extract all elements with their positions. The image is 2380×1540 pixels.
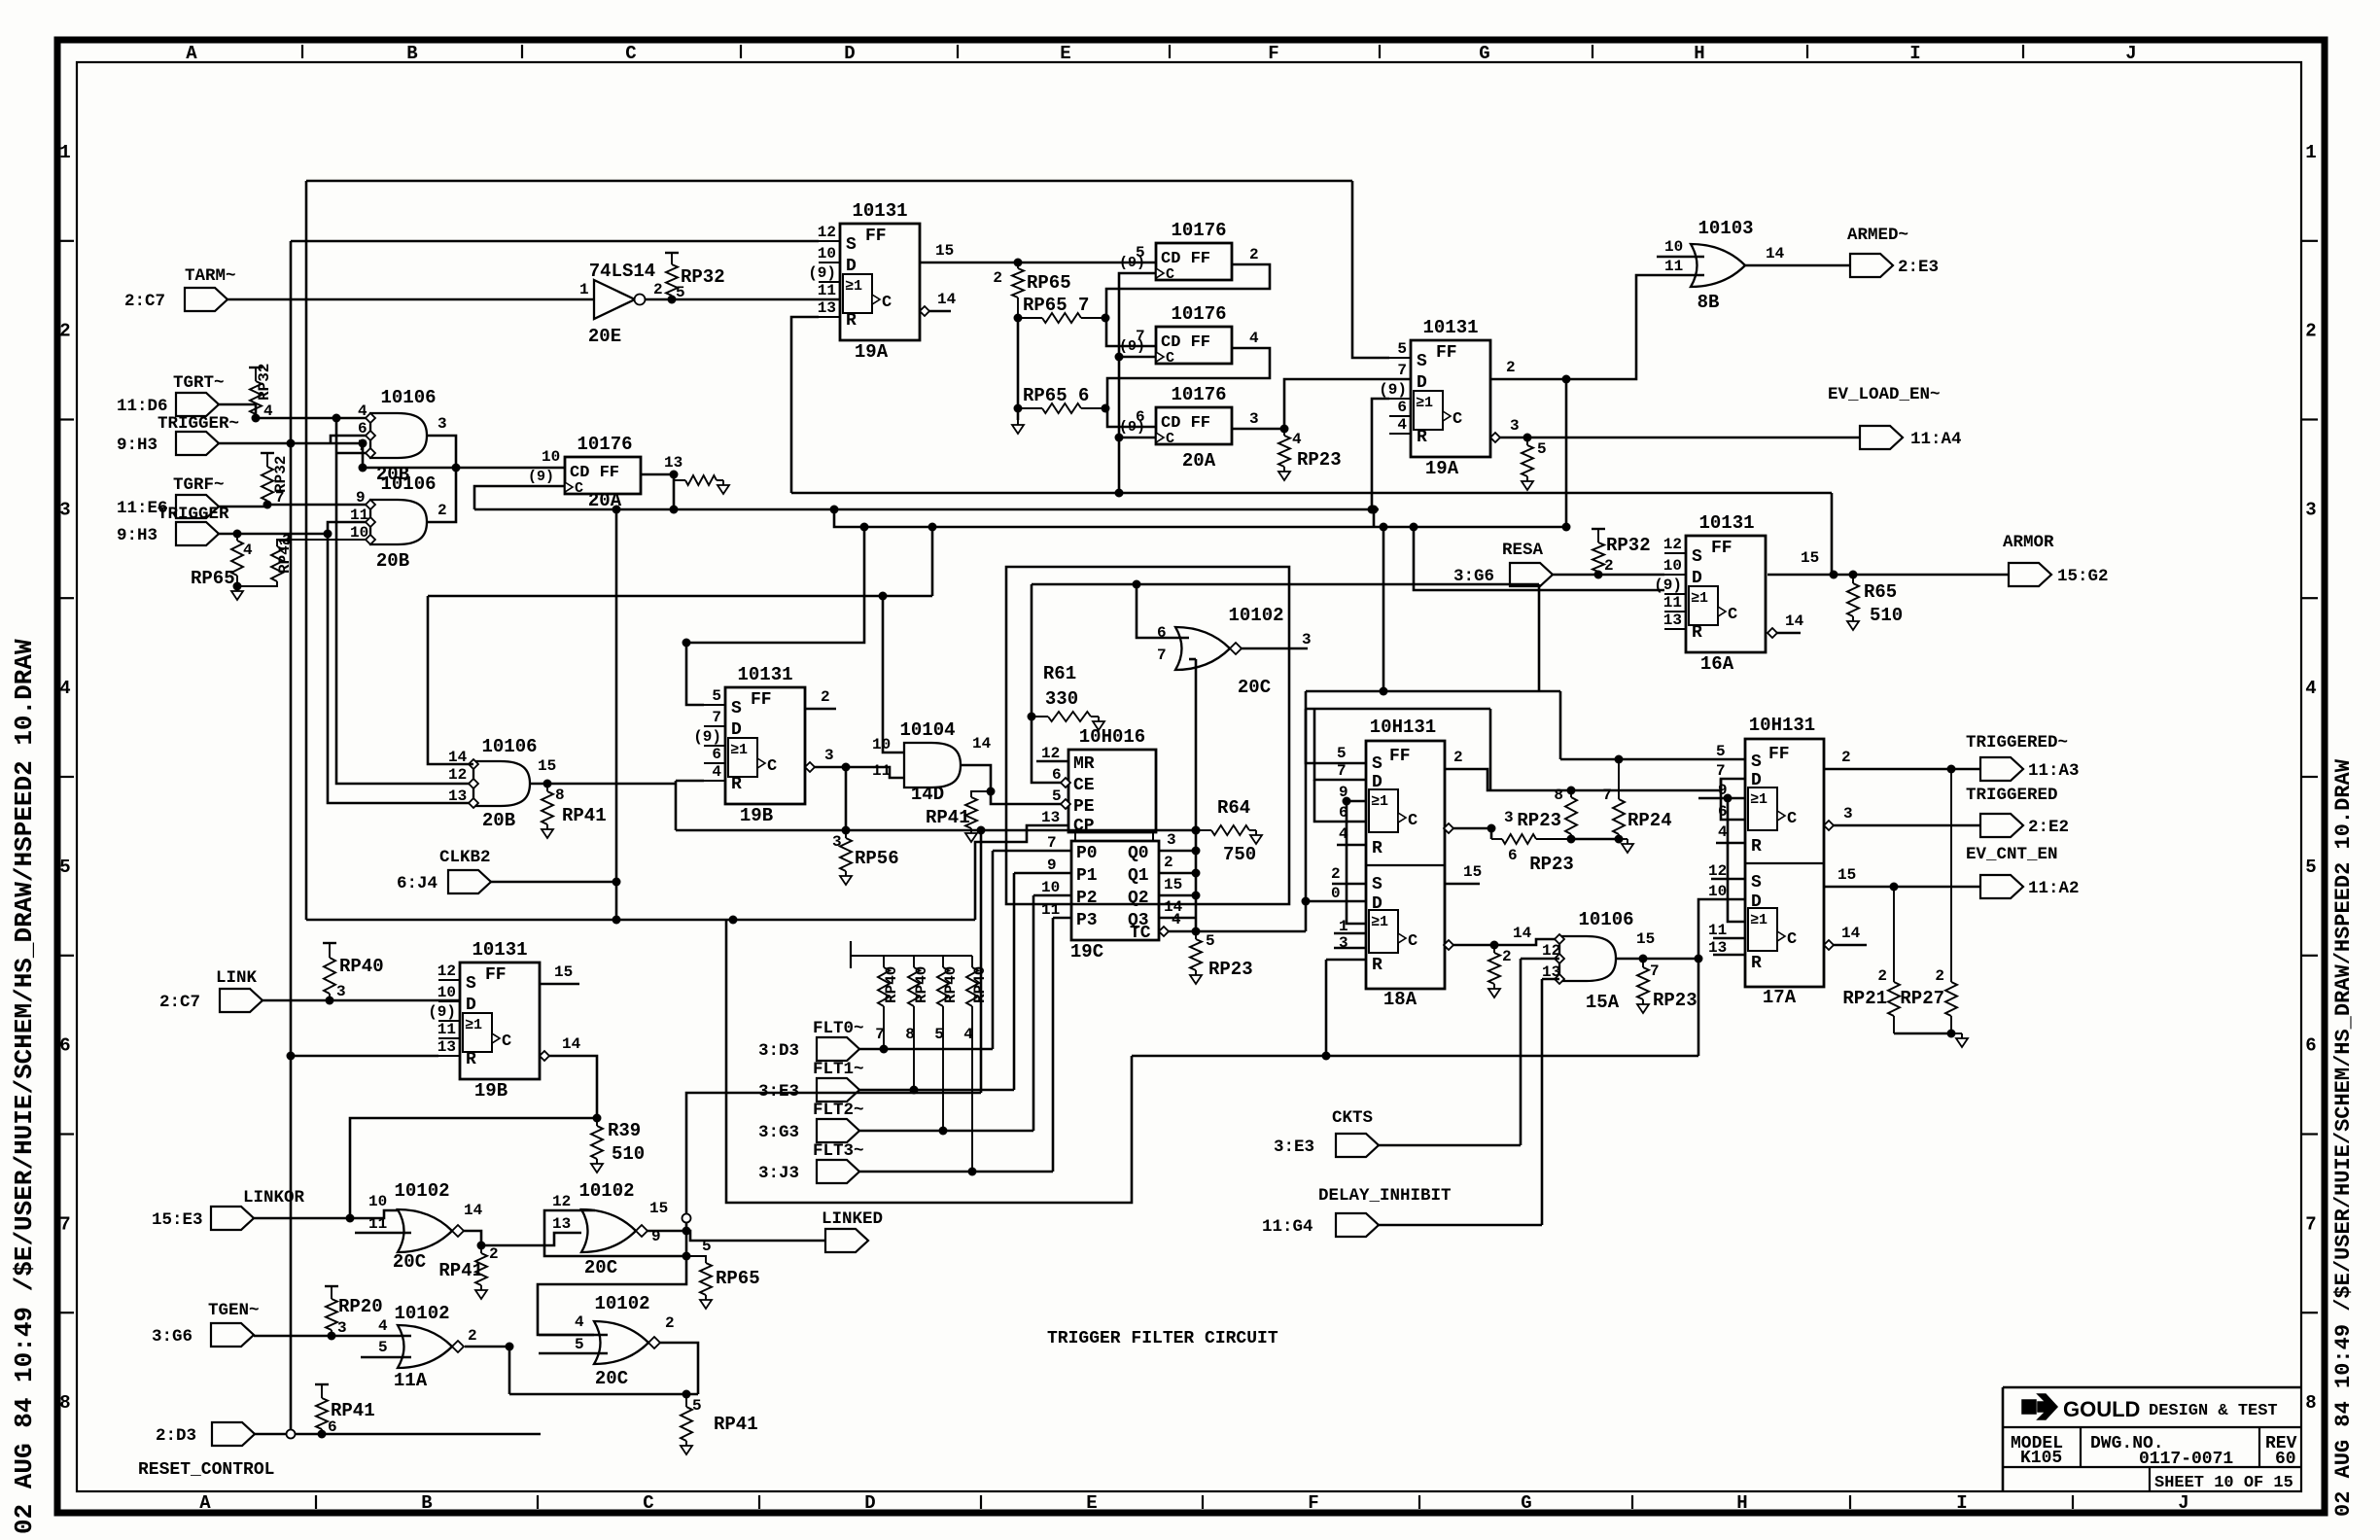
svg-text:RP65 7: RP65 7 bbox=[1023, 295, 1089, 316]
svg-text:RP23: RP23 bbox=[1529, 854, 1574, 875]
wire 20A out 13 to pullup and ground bbox=[641, 473, 674, 476]
svg-text:12: 12 bbox=[437, 962, 456, 980]
resistor RP23 pin 5 below EV_LOAD line bbox=[1526, 437, 1528, 445]
svg-text:C: C bbox=[1408, 812, 1417, 830]
wire FLT3~ to P3 bbox=[859, 1171, 1053, 1173]
svg-text:14: 14 bbox=[1841, 925, 1861, 942]
wire DELAY_INHIBIT to 15A bbox=[1379, 1224, 1542, 1227]
flip-flop U19B 10131 (lower) bbox=[460, 962, 540, 1079]
svg-text:10106: 10106 bbox=[481, 736, 537, 757]
svg-text:3: 3 bbox=[1510, 417, 1520, 435]
svg-text:14: 14 bbox=[937, 291, 957, 308]
svg-text:20B: 20B bbox=[482, 810, 515, 831]
svg-text:≥1: ≥1 bbox=[1750, 791, 1767, 808]
svg-text:11: 11 bbox=[872, 762, 891, 780]
wire 18A D pin 7 bracket bbox=[1314, 709, 1366, 780]
svg-text:11: 11 bbox=[1663, 594, 1682, 612]
svg-text:(9): (9) bbox=[528, 469, 554, 485]
svg-text:19A: 19A bbox=[855, 341, 889, 363]
svg-text:RP41: RP41 bbox=[438, 1260, 483, 1281]
svg-text:4: 4 bbox=[263, 402, 273, 420]
svg-text:10: 10 bbox=[1041, 879, 1060, 896]
wire RP65-6 node to 10176#3 pin 6 bbox=[1107, 408, 1156, 427]
wire TRIGGER~ to 20B pin 6 and bus B1 bbox=[219, 442, 363, 445]
svg-text:TGEN~: TGEN~ bbox=[208, 1301, 260, 1320]
wire 18A lower R from bus1086 bbox=[1326, 959, 1366, 962]
wire top bus B0 bbox=[306, 180, 1352, 183]
wire FLT2~ to P2 bbox=[859, 1130, 1033, 1133]
svg-text:3: 3 bbox=[59, 499, 70, 520]
wire busR horizontal bbox=[791, 492, 1832, 495]
svg-text:2: 2 bbox=[821, 688, 830, 706]
wire TGEN~ to 11A pin 4 bbox=[254, 1335, 411, 1338]
svg-text:CLKB2: CLKB2 bbox=[439, 848, 491, 867]
svg-text:FF: FF bbox=[1711, 539, 1732, 558]
svg-text:10106: 10106 bbox=[380, 473, 436, 495]
svg-text:4: 4 bbox=[963, 1026, 973, 1043]
svg-text:G: G bbox=[1479, 43, 1489, 64]
svg-text:12: 12 bbox=[818, 224, 836, 241]
wire TC feedback up to D-line bbox=[1305, 709, 1308, 901]
wire CKTS to 15A pin 12 bbox=[1521, 958, 1559, 961]
svg-text:I: I bbox=[1956, 1492, 1967, 1514]
svg-text:15: 15 bbox=[1837, 866, 1856, 884]
output flag ARMOR 15:G2 bbox=[2009, 563, 2051, 586]
svg-text:8: 8 bbox=[2305, 1392, 2316, 1414]
svg-text:3: 3 bbox=[1167, 831, 1176, 849]
svg-text:10: 10 bbox=[872, 736, 891, 753]
svg-text:S: S bbox=[1372, 875, 1382, 894]
svg-text:11:A2: 11:A2 bbox=[2028, 879, 2080, 898]
svg-text:8: 8 bbox=[1554, 787, 1563, 804]
svg-text:H: H bbox=[1694, 43, 1704, 64]
svg-text:3:D3: 3:D3 bbox=[758, 1041, 799, 1061]
svg-text:14D: 14D bbox=[911, 784, 944, 805]
wire 20B#3 pin 14 loop from line y613 bbox=[428, 596, 473, 764]
svg-text:10106: 10106 bbox=[380, 387, 436, 408]
svg-text:FF: FF bbox=[1389, 747, 1411, 766]
wire S-line to 18A S pin 5 bbox=[1306, 691, 1366, 763]
svg-text:3: 3 bbox=[1843, 805, 1853, 822]
wire 19A out 15 to 10176 pin 5 bbox=[920, 262, 1156, 264]
svg-text:RP32: RP32 bbox=[256, 364, 273, 401]
svg-text:2: 2 bbox=[1935, 967, 1944, 985]
resistor RP65 pin 5 below LINKED node bbox=[686, 1256, 706, 1263]
svg-text:1: 1 bbox=[579, 281, 589, 298]
svg-text:7: 7 bbox=[1136, 328, 1145, 345]
CD flip-flop U20A 10176 (single) bbox=[565, 457, 641, 494]
svg-text:3:J3: 3:J3 bbox=[758, 1164, 799, 1183]
svg-text:R39: R39 bbox=[608, 1120, 641, 1141]
svg-text:2: 2 bbox=[1453, 749, 1463, 766]
svg-text:R64: R64 bbox=[1217, 797, 1250, 819]
resistor RP20 pin 3 pull on TGEN~ bbox=[331, 1286, 332, 1294]
input flag TARM~ 2:C7 bbox=[185, 288, 227, 311]
svg-text:3:G3: 3:G3 bbox=[758, 1123, 799, 1142]
svg-text:D: D bbox=[844, 43, 855, 64]
svg-text:CP: CP bbox=[1073, 817, 1095, 836]
svg-text:RESA: RESA bbox=[1502, 541, 1544, 560]
svg-text:6: 6 bbox=[1397, 399, 1407, 416]
svg-text:2: 2 bbox=[1506, 359, 1516, 376]
wire bus B1 TRIGGER~ to 19A S bbox=[291, 240, 819, 243]
svg-text:5: 5 bbox=[702, 1238, 712, 1255]
svg-text:5: 5 bbox=[1716, 743, 1726, 760]
svg-text:7: 7 bbox=[1397, 362, 1407, 379]
svg-text:5: 5 bbox=[575, 1336, 584, 1353]
svg-text:K105: K105 bbox=[2020, 1449, 2062, 1468]
svg-text:≥1: ≥1 bbox=[1750, 912, 1767, 928]
svg-text:15: 15 bbox=[538, 757, 556, 775]
svg-text:FLT2~: FLT2~ bbox=[813, 1101, 864, 1120]
svg-text:RP23: RP23 bbox=[1517, 810, 1561, 831]
svg-text:4: 4 bbox=[1397, 416, 1407, 434]
wire 20B pin7 vertical V3 bbox=[336, 418, 473, 784]
svg-text:B: B bbox=[406, 43, 417, 64]
svg-text:RP65: RP65 bbox=[191, 568, 235, 589]
svg-text:10: 10 bbox=[1664, 238, 1683, 256]
svg-text:20E: 20E bbox=[588, 326, 621, 347]
GOULD logo bbox=[2022, 1400, 2036, 1414]
svg-text:≥1: ≥1 bbox=[1371, 793, 1388, 810]
svg-text:2: 2 bbox=[1502, 948, 1512, 965]
svg-text:RP41: RP41 bbox=[714, 1414, 758, 1435]
wire LINK to 19B D bbox=[262, 999, 460, 1002]
wire 16A (9) from busD bbox=[1414, 527, 1664, 590]
svg-text:J: J bbox=[2178, 1492, 2188, 1514]
wire RP65 node loop bbox=[685, 1231, 688, 1256]
svg-text:C: C bbox=[767, 757, 777, 776]
CD flip-flop U20A 10176 (bottom of trio) bbox=[1156, 407, 1232, 444]
vertical wire V4 to 20B#3 pin 13 bbox=[328, 534, 473, 803]
wire 17A D bracket pin 6 bbox=[1721, 779, 1745, 820]
svg-text:9: 9 bbox=[356, 489, 366, 507]
AND gate U20B 10106 (lower) bbox=[370, 500, 427, 544]
svg-text:RP41: RP41 bbox=[331, 1400, 375, 1421]
svg-text:13: 13 bbox=[818, 299, 836, 317]
svg-text:15: 15 bbox=[935, 242, 954, 260]
flip-flop U18A 10H131 dual bbox=[1366, 741, 1445, 989]
svg-text:7: 7 bbox=[1157, 647, 1167, 664]
resistor RP23 pin 5 below TC bbox=[1195, 931, 1197, 939]
svg-text:16A: 16A bbox=[1700, 653, 1734, 675]
input flag CLKB2 6:J4 bbox=[448, 870, 491, 893]
svg-text:RP41: RP41 bbox=[926, 807, 970, 828]
resistor RP23 pin 7 below 15A out bbox=[1642, 959, 1644, 967]
resistor RP32 pull on TGRF~ pin 7 bbox=[262, 467, 273, 501]
svg-text:Q1: Q1 bbox=[1128, 866, 1149, 886]
svg-text:5: 5 bbox=[1537, 440, 1547, 458]
svg-text:8: 8 bbox=[59, 1392, 70, 1414]
NOR gate U20C 10102 (second) bbox=[581, 1209, 636, 1252]
svg-text:RP20: RP20 bbox=[338, 1296, 383, 1317]
svg-text:7: 7 bbox=[1716, 762, 1726, 780]
svg-text:S: S bbox=[1372, 754, 1382, 774]
svg-text:20C: 20C bbox=[584, 1257, 617, 1278]
svg-text:12: 12 bbox=[1663, 536, 1682, 553]
resistor RP32 pull on TARM node pin 5 bbox=[668, 296, 677, 304]
svg-text:14: 14 bbox=[464, 1202, 483, 1219]
svg-text:2:E2: 2:E2 bbox=[2028, 818, 2069, 837]
svg-text:C: C bbox=[1728, 606, 1737, 624]
svg-text:E: E bbox=[1060, 43, 1070, 64]
AND gate U15A 10106 bbox=[1559, 936, 1616, 981]
svg-text:P0: P0 bbox=[1076, 844, 1098, 863]
svg-text:≥1: ≥1 bbox=[1416, 395, 1433, 411]
svg-text:C: C bbox=[1787, 810, 1797, 828]
svg-text:19B: 19B bbox=[474, 1080, 507, 1102]
AND gate U14D 10104 bbox=[904, 743, 961, 787]
svg-text:15:G2: 15:G2 bbox=[2057, 567, 2109, 586]
svg-text:02 AUG 84 10:49 /$E/USER/HUIE/: 02 AUG 84 10:49 /$E/USER/HUIE/SCHEM/HS_D… bbox=[2331, 758, 2356, 1517]
wire 14D out to 10H016 PE bbox=[961, 765, 1061, 804]
counter U19C 10H016 upper section bbox=[1068, 750, 1156, 832]
resistor RP41 pin 3 loop to 20B pin 10 bbox=[237, 581, 277, 586]
wire clock vertical from busC to busE bbox=[615, 509, 618, 920]
resistor RP40 pin 8 bbox=[913, 962, 915, 967]
wire TRIGGER to 20B pin 11 bbox=[219, 522, 370, 534]
svg-text:7: 7 bbox=[2305, 1213, 2316, 1235]
svg-text:11:G4: 11:G4 bbox=[1262, 1217, 1313, 1237]
wire 20C#1 pin 7 from Q-bus bbox=[1189, 658, 1196, 661]
wire CLKB2 flag to clock vertical bbox=[491, 881, 616, 884]
svg-text:3:G6: 3:G6 bbox=[152, 1327, 192, 1347]
svg-text:19B: 19B bbox=[740, 805, 773, 826]
svg-text:2: 2 bbox=[1249, 246, 1259, 263]
svg-text:DELAY_INHIBIT: DELAY_INHIBIT bbox=[1318, 1186, 1452, 1206]
svg-text:7: 7 bbox=[1602, 787, 1612, 804]
wire 11A out down to rail1434 bbox=[465, 1346, 509, 1348]
svg-text:RP21: RP21 bbox=[1842, 988, 1887, 1009]
wire S-line y711 down to 17A S bbox=[1559, 691, 1562, 759]
svg-text:RESET_CONTROL: RESET_CONTROL bbox=[138, 1460, 274, 1480]
svg-text:3:E3: 3:E3 bbox=[1274, 1137, 1314, 1157]
svg-text:15A: 15A bbox=[1586, 992, 1620, 1013]
svg-text:2: 2 bbox=[665, 1314, 675, 1332]
svg-text:C: C bbox=[643, 1492, 653, 1514]
svg-text:4: 4 bbox=[2305, 678, 2316, 699]
svg-text:RP32: RP32 bbox=[681, 266, 725, 288]
wire D-line horizontal y729 bbox=[1306, 708, 1490, 711]
svg-text:2: 2 bbox=[59, 321, 70, 342]
NOR gate U20C 10102 (near 10H016) bbox=[1175, 627, 1230, 670]
wire 19B#2 R from V1 bbox=[291, 1055, 438, 1058]
wire D-line y729 right end down bbox=[1489, 709, 1492, 790]
resistor RP40 pin 3 pull on LINK bbox=[324, 958, 335, 994]
wire 20C#3 pin 4 extend bbox=[539, 1334, 608, 1337]
wire 20A out node down to busC bbox=[673, 474, 676, 509]
wire 19B R pin from vertical 695 bbox=[675, 781, 678, 830]
svg-text:RP40: RP40 bbox=[339, 956, 384, 977]
svg-text:2: 2 bbox=[1877, 967, 1887, 985]
svg-text:7: 7 bbox=[275, 489, 285, 507]
NOR gate U20C 10102 (first) bbox=[398, 1209, 452, 1252]
svg-text:10102: 10102 bbox=[578, 1180, 634, 1202]
wire 19A#2 out 2 node bbox=[1490, 378, 1566, 381]
wire LINKOR to 20C pin 10 bbox=[254, 1210, 398, 1218]
inverter U20E 74LS14 bbox=[594, 280, 635, 319]
resistor RP65 pin 6 horizontal bbox=[1014, 404, 1023, 413]
svg-text:E: E bbox=[1086, 1492, 1097, 1514]
wire 8B out to ARMED~ bbox=[1745, 264, 1850, 267]
svg-text:3: 3 bbox=[832, 833, 842, 851]
svg-text:4: 4 bbox=[712, 763, 721, 781]
svg-text:3: 3 bbox=[282, 532, 292, 549]
wire 17A out 2 to TRIGGERED~ bbox=[1824, 768, 1980, 771]
resistor R61 330 bbox=[1032, 716, 1048, 717]
svg-text:6:J4: 6:J4 bbox=[397, 874, 437, 893]
svg-text:13: 13 bbox=[1041, 809, 1060, 826]
svg-text:R61: R61 bbox=[1043, 663, 1076, 684]
svg-text:750: 750 bbox=[1223, 844, 1256, 865]
svg-text:13: 13 bbox=[448, 787, 467, 805]
wire 18A select dot pin 9 bbox=[1343, 797, 1351, 806]
svg-text:RP23: RP23 bbox=[1208, 959, 1253, 980]
wire TGRF~ to 20B pin 9 bbox=[219, 505, 370, 507]
ground below RP65 bbox=[236, 586, 238, 591]
svg-text:R: R bbox=[1372, 839, 1382, 858]
svg-text:Q0: Q0 bbox=[1128, 844, 1149, 863]
resistor RP40 pin 5 bbox=[942, 962, 944, 967]
svg-text:10102: 10102 bbox=[594, 1293, 649, 1314]
svg-text:11: 11 bbox=[1708, 922, 1727, 939]
svg-text:(9): (9) bbox=[428, 1003, 456, 1021]
output 3 of 17A to TRIGGERED bbox=[1824, 821, 1834, 830]
title block bbox=[2003, 1386, 2301, 1389]
input flag LINKOR 15:E3 bbox=[211, 1207, 254, 1230]
svg-text:FF: FF bbox=[865, 227, 887, 246]
svg-text:10131: 10131 bbox=[472, 939, 527, 961]
svg-text:RP65: RP65 bbox=[1027, 272, 1071, 294]
svg-text:10H131: 10H131 bbox=[1749, 715, 1815, 736]
NOR gate U20C 10102 (third) bbox=[594, 1321, 648, 1364]
svg-text:5: 5 bbox=[1052, 787, 1062, 805]
wire RESA to 16A D bbox=[1553, 574, 1664, 577]
svg-text:≥1: ≥1 bbox=[730, 742, 748, 758]
wire 19B S from busD via loop bbox=[686, 527, 864, 705]
wire 10176#1 out 2 loop to RP65-7 node bbox=[1106, 264, 1270, 318]
wire 17A out 15 to EV_CNT_EN bbox=[1824, 886, 1980, 889]
svg-text:12: 12 bbox=[448, 766, 467, 784]
wire 20C#2 out node up to busA via h1124 bbox=[686, 1093, 981, 1231]
resistor RP41 pin 2 below bbox=[480, 1245, 482, 1253]
svg-text:5: 5 bbox=[59, 857, 70, 878]
resistor R39 510 bbox=[596, 1118, 598, 1126]
wire 20B outputs join to 10176 20A bbox=[427, 436, 456, 522]
wire 19B out 2 stub bbox=[805, 708, 836, 711]
resistor R65 510 below ARMOR node bbox=[1852, 575, 1854, 583]
svg-text:5: 5 bbox=[692, 1397, 702, 1415]
svg-text:A: A bbox=[199, 1492, 211, 1514]
svg-text:13: 13 bbox=[552, 1215, 571, 1233]
svg-text:3: 3 bbox=[337, 1319, 347, 1337]
svg-text:17A: 17A bbox=[1763, 987, 1797, 1008]
wire stub OR 8B pin 10 bbox=[1657, 256, 1704, 259]
wire stub 20C pin 11 bbox=[355, 1232, 411, 1235]
svg-text:R65: R65 bbox=[1864, 581, 1897, 603]
resistor RP40 pin 7 bbox=[883, 962, 885, 967]
svg-text:74LS14: 74LS14 bbox=[589, 261, 655, 282]
svg-text:C: C bbox=[1166, 431, 1174, 447]
wire DELAY_INHIBIT to 15A pin 13 bbox=[1542, 978, 1559, 981]
svg-text:10102: 10102 bbox=[1228, 605, 1283, 626]
svg-text:14: 14 bbox=[1766, 245, 1785, 262]
svg-text:20B: 20B bbox=[376, 550, 409, 572]
svg-text:7: 7 bbox=[1337, 762, 1347, 780]
resistor R64 750 bbox=[1192, 826, 1201, 835]
svg-text:11: 11 bbox=[1664, 258, 1683, 275]
wire 20C#1 pin 6 to y601 bbox=[1137, 584, 1189, 638]
wire busD to y613 bbox=[931, 527, 934, 596]
svg-text:10106: 10106 bbox=[1578, 909, 1633, 930]
input flag FLT0~ 3:D3 bbox=[817, 1037, 859, 1061]
svg-text:2: 2 bbox=[437, 502, 447, 519]
svg-text:RP65: RP65 bbox=[716, 1268, 760, 1289]
svg-text:15: 15 bbox=[1164, 876, 1182, 893]
svg-text:7: 7 bbox=[59, 1213, 70, 1235]
svg-text:J: J bbox=[2125, 43, 2136, 64]
svg-text:(9): (9) bbox=[1379, 381, 1407, 399]
svg-text:C: C bbox=[1166, 350, 1174, 367]
wire RP65-7 node to 10176#2 pin 7 bbox=[1106, 318, 1156, 346]
svg-text:3: 3 bbox=[336, 983, 346, 1000]
svg-text:C: C bbox=[1166, 266, 1174, 283]
svg-text:3: 3 bbox=[437, 415, 447, 433]
resistor RP41 below 14D out bbox=[971, 791, 991, 797]
OR gate U8B 10103 bbox=[1691, 244, 1745, 287]
svg-text:2:D3: 2:D3 bbox=[156, 1426, 196, 1446]
svg-text:ARMED~: ARMED~ bbox=[1847, 226, 1908, 245]
svg-text:3: 3 bbox=[1302, 631, 1312, 648]
svg-text:S: S bbox=[1751, 873, 1762, 892]
svg-text:ARMOR: ARMOR bbox=[2003, 533, 2054, 552]
svg-text:SHEET 10 OF 15: SHEET 10 OF 15 bbox=[2154, 1474, 2293, 1492]
svg-text:330: 330 bbox=[1045, 688, 1078, 710]
wire Q0-Q3 outputs to Q-bus bbox=[1159, 850, 1196, 853]
svg-text:FF: FF bbox=[1436, 343, 1457, 363]
flip-flop U19B 10131 (middle) bbox=[725, 687, 805, 804]
wire 20C#1 out to 20C#2 pin 13 bbox=[463, 1231, 581, 1245]
svg-text:14: 14 bbox=[972, 735, 992, 752]
svg-text:6: 6 bbox=[328, 1418, 337, 1436]
svg-text:6: 6 bbox=[59, 1035, 70, 1057]
svg-text:10: 10 bbox=[818, 245, 836, 262]
svg-text:TGRT~: TGRT~ bbox=[173, 373, 225, 393]
svg-text:10H016: 10H016 bbox=[1079, 726, 1145, 748]
output flag TRIGGERED 2:E2 bbox=[1980, 814, 2023, 837]
svg-text:RP27: RP27 bbox=[1900, 988, 1944, 1009]
svg-text:10: 10 bbox=[437, 984, 456, 1001]
svg-text:18A: 18A bbox=[1383, 989, 1417, 1010]
svg-text:D: D bbox=[864, 1492, 875, 1514]
svg-text:15: 15 bbox=[1801, 549, 1819, 567]
svg-text:LINK: LINK bbox=[216, 968, 258, 988]
svg-text:(9): (9) bbox=[808, 264, 836, 282]
svg-text:≥1: ≥1 bbox=[1691, 590, 1708, 607]
input flag DELAY_INHIBIT 11:G4 bbox=[1336, 1213, 1379, 1237]
svg-text:F: F bbox=[1308, 1492, 1318, 1514]
svg-text:1: 1 bbox=[59, 142, 70, 163]
svg-text:TRIGGERED: TRIGGERED bbox=[1966, 786, 2058, 805]
svg-text:6: 6 bbox=[712, 746, 721, 763]
input flag TRIGGER~ 9:H3 bbox=[176, 432, 219, 455]
svg-text:RP56: RP56 bbox=[855, 848, 899, 869]
output 14 of 16A bbox=[1767, 628, 1777, 638]
wire 19B out 3 to 14D pin 11 bbox=[805, 762, 815, 772]
svg-text:2:C7: 2:C7 bbox=[124, 292, 165, 311]
AND gate U20B 10106 (upper) bbox=[370, 413, 427, 458]
svg-text:4: 4 bbox=[243, 542, 253, 559]
